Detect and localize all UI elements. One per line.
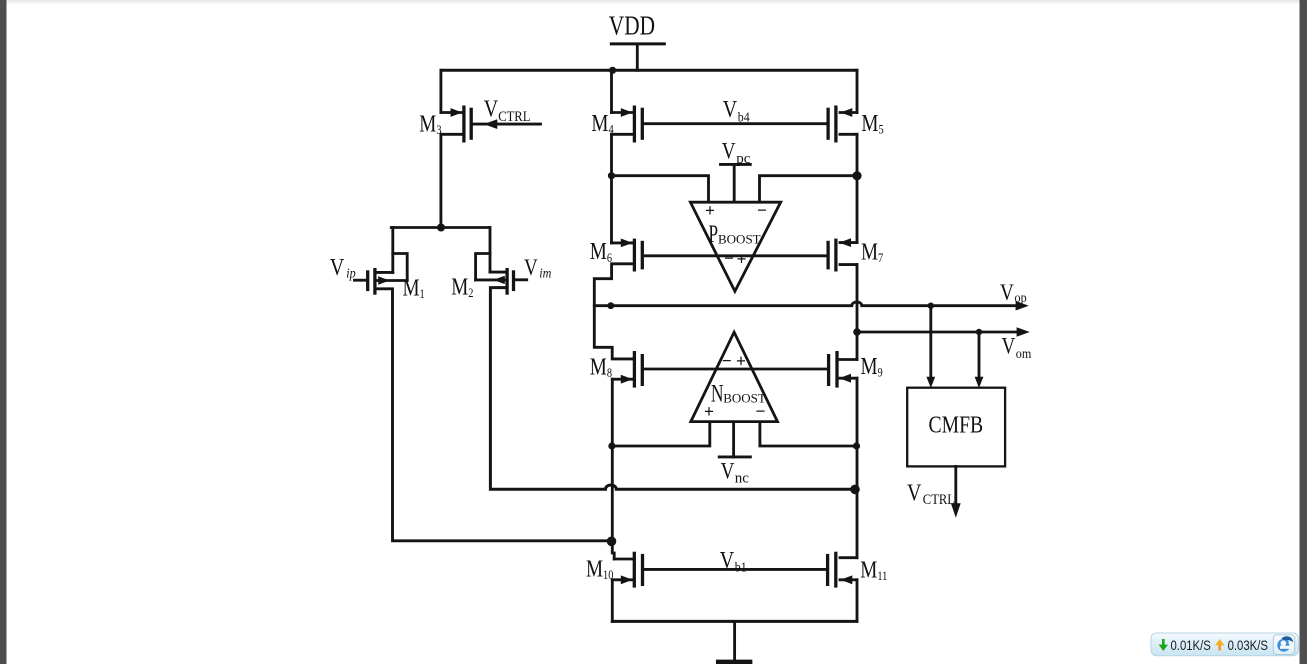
svg-text:V: V [524, 254, 538, 280]
svg-text:CTRL: CTRL [498, 108, 530, 124]
svg-text:0.03K/S: 0.03K/S [1228, 638, 1268, 653]
svg-text:BOOST: BOOST [718, 231, 761, 246]
svg-text:ip: ip [346, 266, 356, 281]
svg-text:V: V [720, 546, 734, 573]
svg-text:op: op [1015, 291, 1027, 306]
svg-text:b1: b1 [735, 559, 747, 575]
svg-text:pc: pc [736, 151, 751, 167]
svg-text:−: − [724, 248, 734, 268]
svg-text:V: V [330, 253, 344, 280]
svg-text:V: V [723, 95, 737, 122]
svg-text:V: V [907, 479, 921, 506]
svg-text:+: + [704, 402, 714, 422]
svg-text:−: − [722, 351, 732, 371]
svg-text:+: + [737, 249, 747, 269]
svg-text:im: im [539, 266, 551, 281]
svg-text:VDD: VDD [609, 11, 655, 41]
svg-text:+: + [705, 201, 715, 221]
svg-text:V: V [721, 458, 735, 484]
svg-text:−: − [756, 401, 766, 421]
svg-text:V: V [1002, 333, 1016, 359]
svg-text:V: V [1000, 279, 1014, 305]
svg-text:P: P [708, 220, 718, 248]
svg-text:+: + [736, 351, 746, 371]
svg-text:V: V [722, 138, 736, 164]
svg-text:V: V [484, 95, 498, 122]
svg-text:b4: b4 [738, 109, 750, 125]
svg-text:nc: nc [735, 471, 750, 487]
svg-text:−: − [757, 200, 767, 220]
svg-text:0.01K/S: 0.01K/S [1171, 638, 1211, 653]
svg-text:om: om [1016, 346, 1032, 361]
svg-text:CMFB: CMFB [929, 411, 984, 438]
svg-text:CTRL: CTRL [923, 491, 955, 507]
